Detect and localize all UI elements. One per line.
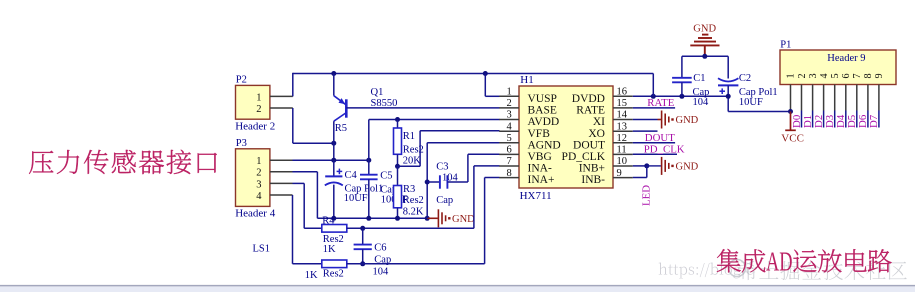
pin stub H1.11 — [613, 153, 633, 155]
wire divider to VFB bend — [398, 165, 421, 167]
wire C2 top lead — [727, 56, 729, 78]
plus sign C2 — [719, 88, 725, 94]
wire C1 top lead — [681, 56, 683, 78]
junction dot C6 top — [360, 226, 365, 231]
svg-text:Header 9: Header 9 — [827, 53, 865, 64]
svg-text:2: 2 — [256, 104, 261, 115]
wire INB vertical — [646, 166, 648, 178]
wire top rail — [293, 73, 654, 75]
wire XI row — [633, 119, 658, 121]
svg-text:9: 9 — [617, 168, 622, 179]
pin stub H1.1 — [499, 95, 519, 97]
pin stub H1.3 — [499, 119, 519, 121]
capacitor C4 plates — [325, 175, 342, 177]
transistor Q1 base bar — [345, 99, 348, 117]
pin stub H1.16 — [613, 95, 633, 97]
wire R1 top lead — [397, 120, 399, 129]
pin stub P1.9 — [878, 85, 880, 111]
pin stub P3.3 — [270, 182, 293, 184]
watermark hanzi — [738, 261, 757, 280]
wire DVDD to P1 — [728, 111, 790, 113]
connector P2 — [236, 85, 270, 119]
svg-text:INA-: INA- — [528, 163, 552, 175]
svg-text:VUSP: VUSP — [528, 93, 557, 105]
wire DVDD row — [633, 95, 728, 97]
junction dot R3/rail — [395, 216, 400, 221]
wire P2.2 to collector — [293, 142, 334, 144]
junction dot GND/captop — [702, 54, 707, 59]
pin stub H1.10 — [613, 165, 633, 167]
svg-text:16: 16 — [617, 87, 628, 98]
svg-text:C2: C2 — [739, 73, 751, 84]
wire collector down — [333, 121, 335, 160]
wire C4 top lead — [333, 160, 335, 176]
svg-text:C5: C5 — [380, 171, 392, 182]
svg-text:7: 7 — [507, 156, 512, 167]
svg-text:D7: D7 — [868, 114, 880, 128]
junction dot C5/rail — [366, 216, 371, 221]
pin stub P1.5 — [834, 85, 836, 111]
resistor R1 — [394, 128, 402, 154]
pin stub H1.12 — [613, 142, 633, 144]
svg-text:AVDD: AVDD — [528, 116, 560, 128]
capacitor C5 plates — [360, 175, 378, 180]
svg-text:5: 5 — [830, 73, 841, 78]
svg-text:R5: R5 — [335, 123, 347, 134]
capacitor C2 plates — [718, 78, 738, 81]
svg-text:3: 3 — [256, 179, 261, 190]
svg-text:7: 7 — [852, 73, 863, 78]
wire INB- row — [633, 177, 647, 179]
wire C2 bottom lead — [727, 85, 729, 111]
svg-text:DVDD: DVDD — [572, 93, 605, 105]
svg-text:C6: C6 — [374, 242, 386, 253]
junction dot P1.1/VCC — [788, 109, 793, 114]
svg-text:AGND: AGND — [528, 139, 561, 151]
svg-text:GND: GND — [452, 214, 475, 225]
svg-text:C3: C3 — [436, 161, 448, 172]
wire C3 right lead — [447, 181, 468, 183]
wire P1.2 drop — [801, 111, 803, 128]
svg-text:RATE: RATE — [576, 105, 605, 117]
wire H1 pin8 — [485, 177, 500, 179]
svg-text:PD_CLK: PD_CLK — [644, 144, 685, 156]
svg-text:GND: GND — [693, 24, 716, 35]
svg-text:12: 12 — [617, 133, 628, 144]
wire C3 left lead — [427, 181, 440, 183]
title integrated AD opamp circuit — [717, 249, 741, 273]
svg-text:Q1: Q1 — [371, 87, 384, 98]
svg-text:PD_CLK: PD_CLK — [562, 151, 606, 163]
svg-text:H1: H1 — [520, 74, 533, 86]
capacitor C3 plates — [440, 175, 448, 188]
capacitor C1 plates — [672, 78, 692, 83]
wire P3.2 right — [293, 171, 318, 173]
wire base to H1 pin2 — [346, 107, 499, 109]
svg-text:VCC: VCC — [781, 133, 804, 145]
pin stub P3.4 — [270, 194, 293, 196]
svg-text:INB-: INB- — [581, 174, 605, 186]
svg-text:1K: 1K — [323, 244, 336, 255]
junction dot C4 top — [331, 158, 336, 163]
junction dot C3 left — [425, 180, 430, 185]
svg-text:4: 4 — [819, 73, 830, 78]
wire C4 bottom lead — [333, 185, 335, 219]
wire INB+ row — [633, 165, 647, 167]
svg-text:9: 9 — [874, 73, 885, 78]
svg-text:P3: P3 — [236, 138, 247, 149]
wire ground rail — [317, 217, 427, 219]
power port VCC — [785, 112, 796, 131]
junction dot R1/R3 — [395, 164, 400, 169]
svg-text:LS1: LS1 — [253, 243, 271, 254]
wire H1 pin6 VBG — [468, 153, 500, 155]
pin stub H1.15 — [613, 107, 633, 109]
ic H1 body — [519, 86, 613, 188]
svg-text:15: 15 — [617, 98, 628, 109]
pin stub H1.6 — [499, 153, 519, 155]
pin stub P1.6 — [845, 85, 847, 111]
svg-text:2: 2 — [507, 98, 512, 109]
transistor Q1 emitter arrow — [339, 98, 346, 104]
title pressure sensor interface — [29, 151, 53, 174]
ground symbol mid — [427, 217, 438, 219]
wire AGND vertical — [426, 143, 428, 219]
svg-text:Header 2: Header 2 — [235, 121, 275, 133]
junction dot C5 top — [366, 158, 371, 163]
pin stub H1.4 — [499, 130, 519, 132]
svg-text:Res2: Res2 — [403, 195, 424, 206]
pin stub H1.8 — [499, 177, 519, 179]
svg-text:DOUT: DOUT — [573, 139, 605, 151]
wire P1.9 drop — [878, 111, 880, 128]
svg-text:RATE: RATE — [647, 97, 674, 109]
svg-text:GND: GND — [676, 162, 699, 173]
wire C5 bottom lead — [368, 179, 370, 218]
junction dot pin1 drop/top-rail — [483, 71, 488, 76]
resistor R4 — [322, 225, 347, 233]
svg-text:C1: C1 — [693, 73, 705, 84]
svg-text:HX711: HX711 — [520, 190, 552, 202]
transistor Q1 emitter wire — [333, 74, 335, 96]
svg-text:4: 4 — [256, 191, 262, 202]
wire R4 row to pin7 drop — [347, 227, 474, 229]
svg-text:1: 1 — [507, 87, 512, 98]
pin stub P1.4 — [823, 85, 825, 111]
junction dot rail/AGND — [425, 216, 430, 221]
svg-text:P1: P1 — [780, 40, 791, 51]
wire cap top bus — [682, 55, 728, 57]
wire P2.2 down — [292, 108, 294, 143]
junction dot C4/rail — [331, 216, 336, 221]
connector P3 — [236, 149, 270, 207]
svg-text:1: 1 — [786, 73, 797, 78]
svg-text:6: 6 — [507, 145, 512, 156]
wire H1 pin5 AGND — [427, 142, 499, 144]
svg-text:10: 10 — [617, 156, 628, 167]
svg-text:C4: C4 — [345, 170, 358, 181]
svg-text:Header 4: Header 4 — [235, 208, 276, 220]
wire XO row — [633, 130, 658, 132]
pin stub P1.8 — [867, 85, 869, 111]
pin stub P1.7 — [856, 85, 858, 111]
svg-text:10UF: 10UF — [344, 193, 368, 204]
wire P3.2 down to gnd rail — [316, 172, 318, 219]
svg-text:1: 1 — [256, 156, 261, 167]
wire P3.3 to R4 — [304, 227, 322, 229]
transistor Q1 emitter diagonal — [334, 96, 346, 105]
svg-text:2: 2 — [256, 168, 261, 179]
svg-text:XI: XI — [593, 116, 605, 128]
svg-text:GND: GND — [676, 115, 699, 126]
svg-text:VFB: VFB — [528, 128, 551, 140]
svg-text:XO: XO — [588, 128, 605, 140]
svg-text:1K: 1K — [305, 270, 318, 281]
wire P3.4 down — [292, 195, 294, 264]
power port GND top — [690, 35, 719, 57]
svg-text:20K: 20K — [403, 156, 422, 167]
wire top rail drop — [652, 74, 654, 97]
svg-text:INA+: INA+ — [528, 174, 555, 186]
wire pin8 vertical — [484, 178, 486, 264]
pin stub P1.3 — [812, 85, 814, 111]
wire H1 pin1 horizontal — [485, 95, 499, 97]
wire RATE row — [633, 107, 675, 109]
svg-text:104: 104 — [693, 97, 710, 108]
svg-text:8: 8 — [863, 73, 874, 78]
svg-text:104: 104 — [373, 266, 390, 277]
bottom border band — [0, 286, 915, 292]
svg-text:4: 4 — [507, 121, 513, 132]
svg-text:8: 8 — [507, 168, 512, 179]
svg-text:1: 1 — [256, 92, 261, 103]
wire R3 top lead — [397, 166, 399, 185]
wire PD_CLK row — [633, 153, 677, 155]
wire H1 pin3 AVDD — [369, 119, 500, 121]
pin stub H1.9 — [613, 177, 633, 179]
wire R3 bottom lead — [397, 208, 399, 219]
ground symbol pin14 — [658, 119, 661, 121]
wire C6 bottom lead — [362, 249, 364, 264]
wire C1 bottom lead — [681, 82, 683, 96]
svg-text:R3: R3 — [403, 184, 415, 195]
wire C6 top lead — [362, 228, 364, 244]
pin stub P1.1 — [790, 85, 792, 111]
pin stub P2.1 — [270, 95, 293, 97]
pin stub H1.5 — [499, 142, 519, 144]
wire P1.6 drop — [845, 111, 847, 128]
pin stub P3.2 — [270, 171, 293, 173]
wire VFB vertical — [419, 131, 421, 167]
junction dot C2/DVDD — [726, 94, 731, 99]
junction dot R1 top — [395, 117, 400, 122]
svg-text:5: 5 — [507, 133, 512, 144]
svg-text:INB+: INB+ — [579, 163, 605, 175]
wire P3.3 right — [293, 182, 305, 184]
wire P1.8 drop — [867, 111, 869, 128]
transistor Q1 collector diagonal — [334, 113, 347, 122]
svg-text:AD: AD — [766, 247, 793, 277]
wire P3.3 down — [303, 183, 305, 228]
svg-text:2: 2 — [797, 73, 808, 78]
connector P1 — [780, 50, 896, 85]
wire R6 row to pin8 drop — [347, 263, 485, 265]
resistor R6 — [322, 260, 347, 268]
pin stub H1.14 — [613, 119, 633, 121]
wire drop to H1 pin1 — [484, 74, 486, 97]
wire P3.4 to R6 — [293, 263, 322, 265]
junction dot INB tie — [644, 163, 649, 168]
wire DOUT row — [633, 142, 675, 144]
svg-text:10UF: 10UF — [739, 97, 763, 108]
svg-text:6: 6 — [841, 73, 852, 78]
wire P1.4 drop — [823, 111, 825, 128]
svg-text:R1: R1 — [403, 131, 415, 142]
wire P3.1 to AVDD node — [293, 159, 369, 161]
wire H1 pin4 VFB — [420, 130, 499, 132]
junction dot C1 bottom — [679, 94, 684, 99]
wire H1 pin7 — [474, 165, 500, 167]
wire P2.1 up to top rail — [292, 73, 294, 97]
wire C5 vertical from AVDD row — [368, 120, 370, 175]
pin stub H1.13 — [613, 130, 633, 132]
svg-text:P2: P2 — [236, 75, 247, 86]
svg-text:Res2: Res2 — [323, 269, 344, 280]
wire R1 bottom lead — [397, 154, 399, 166]
junction dot collector/P2.2 — [331, 141, 336, 146]
wire P1.7 drop — [856, 111, 858, 128]
wire VBG vertical — [467, 154, 469, 182]
svg-text:VBG: VBG — [528, 151, 552, 163]
svg-text:DOUT: DOUT — [645, 132, 675, 144]
junction dot emitter/top-rail — [331, 71, 336, 76]
junction dot DVDD/top-rail — [651, 94, 656, 99]
ground symbol pin10 — [647, 165, 661, 167]
pin stub H1.2 — [499, 107, 519, 109]
svg-text:BASE: BASE — [528, 105, 557, 117]
svg-text:LED: LED — [641, 185, 653, 206]
watermark at sign — [729, 260, 746, 277]
svg-text:3: 3 — [808, 73, 819, 78]
pin stub P1.2 — [801, 85, 803, 111]
svg-text:14: 14 — [617, 110, 628, 121]
watermark url — [659, 263, 668, 275]
wire P1.5 drop — [834, 111, 836, 128]
pin stub P3.1 — [270, 159, 293, 161]
svg-text:8.2K: 8.2K — [403, 206, 424, 217]
svg-text:13: 13 — [617, 121, 628, 132]
wire pin7 vertical — [473, 166, 475, 228]
svg-text:3: 3 — [507, 110, 512, 121]
svg-text:11: 11 — [617, 145, 627, 156]
capacitor C6 plates — [354, 245, 372, 250]
plus sign C4 — [337, 169, 343, 175]
wire P1.3 drop — [812, 111, 814, 128]
pin stub H1.7 — [499, 165, 519, 167]
junction dot C6 bottom — [360, 261, 365, 266]
resistor R3 — [394, 186, 402, 208]
pin stub P2.2 — [270, 107, 293, 109]
svg-text:Cap: Cap — [436, 195, 453, 206]
